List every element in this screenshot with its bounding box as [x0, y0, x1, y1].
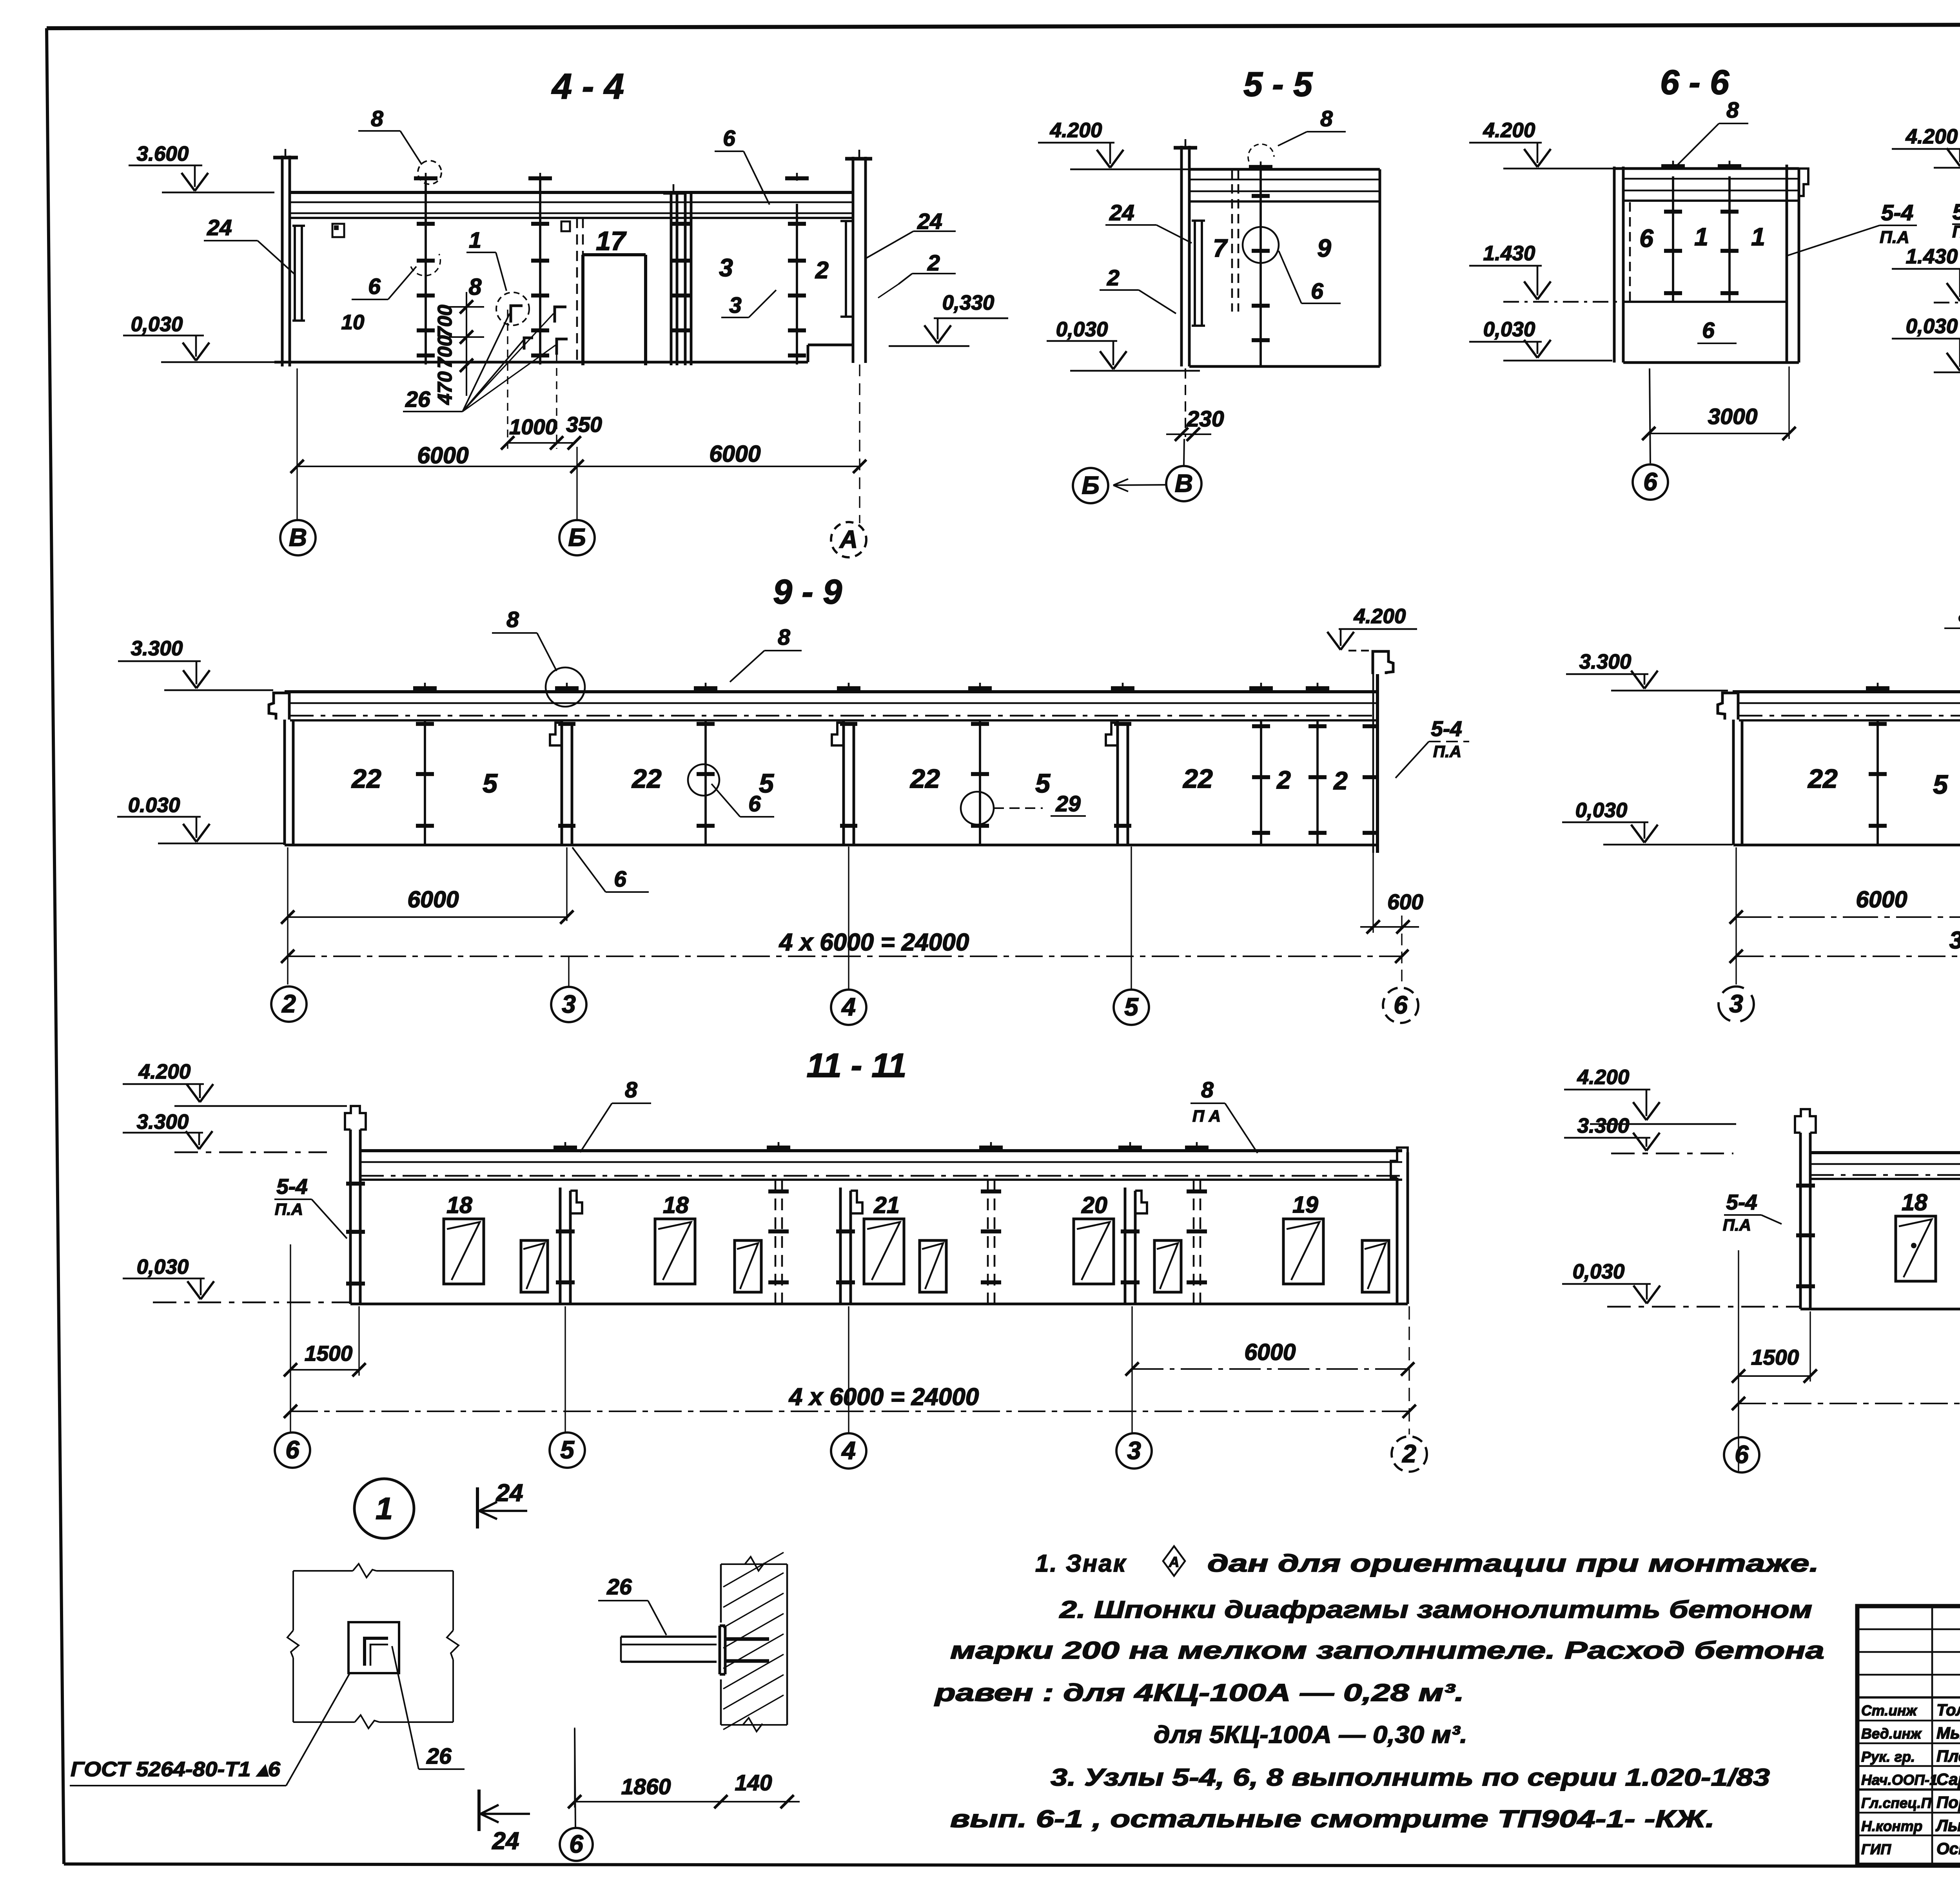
section 5-5 elevation 0.030	[1047, 318, 1200, 371]
svg-text:6: 6	[1735, 1440, 1749, 1469]
svg-text:0,030: 0,030	[1906, 315, 1958, 338]
svg-text:Плетнев: Плетнев	[1936, 1747, 1960, 1765]
section 12-12 floor line	[1800, 1308, 1960, 1311]
svg-text:4.200: 4.200	[1354, 605, 1406, 628]
svg-text:Толмачева: Толмачева	[1936, 1701, 1960, 1719]
section 11-11 big window 21 bay3	[864, 1219, 904, 1284]
section 11-11 witness lines to axes	[290, 1244, 1409, 1434]
svg-text:6000: 6000	[1856, 887, 1907, 912]
section 11-11 axis circle 6	[275, 1432, 310, 1468]
svg-text:18: 18	[1902, 1189, 1927, 1215]
svg-text:6: 6	[748, 791, 761, 816]
svg-text:140: 140	[735, 1770, 772, 1795]
section 5-5 dimension 230	[1166, 406, 1224, 441]
section 6-6 tie 2	[1718, 161, 1741, 302]
section 11-11 dimension 1500	[284, 1306, 366, 1376]
svg-text:470: 470	[434, 371, 456, 405]
section 4-4 panel joint tie 3	[785, 173, 809, 364]
section 12-12 left wall with T-head (axis 6 area)	[1795, 1109, 1816, 1309]
section 11-11 small window bay1	[521, 1240, 548, 1292]
svg-text:равен : для 4КЦ-100А — 0,2: равен : для 4КЦ-100А — 0,28 м³.	[934, 1679, 1464, 1706]
section 9-9 axis circle 4	[831, 847, 866, 1025]
section 6-6 label 6 below	[1697, 318, 1737, 343]
svg-text:8: 8	[1201, 1077, 1214, 1102]
section 4-4 left wall column (axis B)	[273, 149, 298, 366]
svg-text:6000: 6000	[1244, 1339, 1296, 1365]
section 11-11 floor line	[350, 1303, 1408, 1306]
section 11-11 label 18 bay2	[663, 1192, 689, 1218]
section 4-4 elevation mark 0.330 right	[889, 291, 1008, 346]
section 12-12 witness lines	[1739, 1250, 1960, 1472]
svg-text:4.200: 4.200	[1906, 125, 1958, 148]
notes diamond А symbol	[1163, 1546, 1185, 1576]
section 12-12 elevation 0.030	[1562, 1260, 1800, 1307]
section 11-11 label 19 bay5	[1292, 1192, 1318, 1218]
section 10-10 dimension 3x6000=18000	[1730, 927, 1960, 963]
section 4-4 axis circle Б	[559, 520, 595, 555]
section 12-12 label 18 bay1	[1902, 1189, 1927, 1215]
svg-text:П.А: П.А	[1723, 1216, 1751, 1234]
svg-text:дан для ориентации при мон: дан для ориентации при монтаже.	[1207, 1550, 1819, 1577]
section 4-4 door opening 17	[583, 255, 646, 365]
section 11-11 elevation 3.300	[123, 1110, 327, 1152]
svg-text:2: 2	[1276, 766, 1291, 794]
section 9-9 roof slab lines	[285, 692, 1377, 720]
svg-text:1: 1	[376, 1491, 393, 1526]
section 11-11 joint column axis 4	[836, 1188, 862, 1304]
section 4-4 label 24 right with leader	[866, 209, 956, 258]
svg-text:6: 6	[569, 1830, 583, 1858]
section 12-12 elevation 4.200	[1564, 1066, 1736, 1124]
section 4-4 axis circle А (dashed)	[831, 522, 866, 557]
section 6-6 detail label 5-4 П.А	[1788, 200, 1917, 256]
svg-text:П.А: П.А	[1880, 228, 1909, 247]
svg-text:0,030: 0,030	[1573, 1260, 1625, 1283]
section 9-9 floor line	[285, 844, 1377, 847]
detail 2: anchor bar 26 in wall section	[598, 1574, 666, 1635]
section 9-9 axis circle 2	[271, 986, 307, 1022]
svg-text:3 x 6000 = 18000: 3 x 6000 = 18000	[1949, 927, 1960, 954]
svg-text:ГИП: ГИП	[1861, 1841, 1891, 1857]
section 11-11 dashed joint bay3	[979, 1142, 1003, 1304]
section 11-11 axis circle 4	[831, 1433, 866, 1469]
section 6-6 bottom line	[1623, 361, 1799, 364]
detail callout circle 1	[354, 1479, 414, 1538]
section 6-6 left wall	[1614, 167, 1630, 363]
section 10-10 elevation 3.300	[1566, 650, 1728, 691]
svg-text:8: 8	[469, 274, 482, 300]
svg-text:6: 6	[614, 867, 626, 892]
section 4-4 vertical dimension chain 470 700 700	[434, 292, 484, 405]
section 6-6 elevation 4.200	[1469, 119, 1614, 169]
section 4-4 dashed arc at tie 1 mid	[411, 254, 440, 276]
svg-text:Б: Б	[1082, 471, 1099, 499]
svg-text:0,330: 0,330	[942, 291, 995, 314]
svg-text:11 - 11: 11 - 11	[807, 1047, 907, 1084]
section 4-4 hidden joint dashed lines at axis B	[577, 218, 583, 364]
svg-text:8: 8	[778, 625, 790, 650]
section 5-5 roof slab lines	[1189, 169, 1380, 201]
svg-text:230: 230	[1186, 406, 1224, 432]
section 4-4 axis circle В	[280, 520, 316, 555]
section 5-5 bottom line	[1189, 365, 1380, 368]
section 9-9 label 8 first with leader to circle	[492, 607, 585, 707]
svg-text:А: А	[839, 525, 858, 553]
svg-text:4.200: 4.200	[1577, 1066, 1630, 1089]
section 11-11 dashed joint bay2	[767, 1142, 790, 1304]
svg-text:Порученко: Порученко	[1936, 1793, 1960, 1811]
svg-text:3: 3	[1127, 1436, 1141, 1465]
svg-text:6000: 6000	[417, 442, 468, 468]
svg-text:8: 8	[1958, 602, 1960, 627]
section 4-4 small embed square right	[561, 221, 570, 231]
section 9-9 axis circle 6	[1383, 988, 1418, 1023]
section 11-11 label 5-4 П.А	[274, 1174, 347, 1238]
svg-text:4 - 4: 4 - 4	[551, 67, 624, 107]
svg-text:2: 2	[927, 250, 940, 276]
svg-text:6000: 6000	[407, 887, 459, 912]
svg-text:Н.контр: Н.контр	[1861, 1818, 1922, 1834]
svg-text:Остапенко: Остапенко	[1936, 1839, 1960, 1858]
section 9-9 tie bay4-5	[968, 683, 992, 845]
section 4-4 roof slab lines	[290, 192, 853, 218]
section 10-10 panel labels	[1807, 763, 1960, 823]
svg-text:В: В	[289, 523, 307, 551]
svg-text:Мыколс А: Мыколс А	[1936, 1724, 1960, 1742]
section 4-4 elevation mark 0.030	[123, 313, 278, 362]
section cut symbol 24 upper	[477, 1480, 527, 1529]
section 12-12 elevation 3.300	[1564, 1114, 1733, 1153]
section 9-9 tie bay2-3	[413, 683, 437, 845]
svg-text:24: 24	[917, 209, 942, 234]
title block left signature table	[1857, 1606, 1960, 1865]
section 9-9 label 6 on tie bay3-4	[711, 784, 774, 817]
svg-text:4: 4	[841, 1436, 856, 1465]
section 7-7 elevation 0.030	[1892, 315, 1960, 372]
svg-text:29: 29	[1055, 791, 1081, 816]
svg-text:1.430: 1.430	[1906, 245, 1958, 268]
svg-text:700: 700	[434, 335, 456, 368]
svg-text:3: 3	[562, 990, 576, 1018]
svg-text:5-4: 5-4	[1726, 1190, 1757, 1214]
section cut symbol 24 lower	[479, 1790, 530, 1855]
section 11-11 left wall with T-head (axis 6 area)	[345, 1106, 366, 1304]
svg-text:6 - 6: 6 - 6	[1660, 63, 1730, 102]
section 4-4 floor line	[274, 345, 854, 362]
svg-text:3.600: 3.600	[137, 142, 189, 165]
section 4-4 dimension row 6000 6000	[290, 364, 866, 523]
section 11-11 axis circle 5	[550, 1432, 585, 1468]
svg-text:4 x 6000 = 24000: 4 x 6000 = 24000	[779, 929, 969, 956]
svg-text:ГОСТ 5264-80-Т1 ▴6: ГОСТ 5264-80-Т1 ▴6	[71, 1758, 281, 1781]
svg-text:марки 200 на мелком заполн: марки 200 на мелком заполнителе. Расход …	[950, 1637, 1824, 1664]
section 6-6 elevation 0.030	[1469, 318, 1612, 361]
section 11-11 label 21 bay3	[873, 1192, 900, 1218]
svg-text:5: 5	[759, 769, 774, 798]
svg-text:17: 17	[596, 226, 627, 256]
svg-text:1. Знак: 1. Знак	[1035, 1550, 1127, 1577]
section 4-4 label 2 right with dashed leader	[878, 250, 956, 298]
section 4-4 label 8 top with leader	[358, 106, 422, 165]
section 7-7 elevation 1.430	[1892, 245, 1960, 303]
svg-text:0.030: 0.030	[128, 794, 180, 817]
svg-text:6: 6	[723, 126, 735, 151]
svg-text:8: 8	[1726, 98, 1739, 123]
notes text line 5	[1154, 1721, 1467, 1748]
svg-text:7: 7	[1213, 234, 1228, 262]
notes text line 4	[934, 1679, 1464, 1706]
section 9-9 elevation 4.200 right	[1327, 605, 1417, 651]
svg-text:5: 5	[1035, 769, 1051, 798]
section 4-4 label 6 mid-left with leader	[352, 267, 416, 299]
svg-text:5: 5	[560, 1436, 575, 1464]
svg-text:22: 22	[631, 764, 662, 794]
svg-text:1000: 1000	[509, 415, 557, 439]
section 4-4 label 24 left with leader	[204, 215, 295, 274]
section 4-4 label 6 top-right with leader	[715, 126, 769, 205]
svg-text:24: 24	[1109, 200, 1134, 225]
section 5-5 axis circle Б with arrow from В	[1073, 439, 1201, 503]
svg-text:Лышенко: Лышенко	[1935, 1816, 1960, 1835]
section 12-12 big window 18 bay1 (with dot)	[1896, 1216, 1936, 1281]
section 9-9 left parapet and wall (axis 2)	[269, 693, 293, 845]
svg-text:22: 22	[909, 764, 940, 794]
section 10-10 floor line	[1733, 844, 1960, 847]
svg-text:6: 6	[285, 1436, 299, 1464]
section 5-5 title	[1243, 65, 1313, 103]
section 9-9 tie 1 in bay5-6	[1249, 683, 1273, 845]
svg-text:П.А: П.А	[1952, 222, 1960, 241]
section 5-5 hidden dashed lines	[1232, 169, 1238, 312]
section 9-9 panel labels 22 5 22 5 22 5 22 2 2	[351, 764, 1348, 798]
svg-text:0,030: 0,030	[137, 1255, 189, 1278]
detail: label 26 with leader	[392, 1646, 465, 1769]
section 9-9 detail circle on tie bay4-5 with label 29	[961, 791, 1086, 825]
svg-text:Вед.инж: Вед.инж	[1861, 1726, 1922, 1742]
svg-text:0,030: 0,030	[1056, 318, 1108, 341]
svg-text:26: 26	[606, 1574, 632, 1599]
svg-text:1500: 1500	[1751, 1345, 1799, 1369]
section 11-11 label 20 bay4	[1081, 1192, 1107, 1218]
section 6-6 panel label 1 (first)	[1694, 223, 1708, 251]
svg-text:0,030: 0,030	[131, 313, 183, 336]
section 12-12 dimension 1500 left	[1732, 1311, 1817, 1383]
section 11-11 label 8 with leader	[580, 1077, 651, 1152]
section 11-11 label 8 П.А right with leader	[1191, 1077, 1258, 1153]
section 5-5 elevation 4.200	[1038, 119, 1200, 169]
svg-text:9: 9	[1317, 234, 1331, 262]
section 9-9 dimension 600 right	[1360, 890, 1423, 934]
section 9-9 detail circle on tie bay3-4	[688, 764, 719, 796]
detail 2: dimensions 1860 and 140	[568, 1728, 800, 1808]
section 4-4 panel label 10	[341, 311, 365, 334]
section 4-4 small embed square on panel 10	[332, 224, 344, 237]
svg-text:П.А: П.А	[1433, 742, 1461, 761]
section 7-7 elevation 4.200	[1892, 125, 1960, 168]
section 11-11 roof slab lines	[360, 1151, 1402, 1180]
section 11-11 small window bay5	[1362, 1240, 1389, 1292]
svg-text:3.300: 3.300	[1577, 1114, 1630, 1137]
section 6-6 title	[1660, 63, 1730, 102]
section 11-11 dashed joint bay4	[1185, 1142, 1209, 1304]
section 11-11 title	[807, 1047, 907, 1084]
section 4-4 label 17	[596, 226, 627, 256]
svg-text:8: 8	[1320, 106, 1333, 131]
svg-text:3: 3	[719, 254, 733, 282]
svg-text:1: 1	[1694, 223, 1708, 251]
svg-text:2: 2	[281, 990, 296, 1018]
svg-text:4: 4	[841, 993, 856, 1021]
svg-text:3.300: 3.300	[137, 1110, 189, 1133]
section 9-9 label 8 second with leader	[730, 625, 802, 682]
section 12-12 roof slab lines	[1810, 1153, 1960, 1179]
svg-text:3.300: 3.300	[131, 637, 183, 660]
section 9-9 dimension 6000	[281, 887, 573, 924]
section 11-11 axis circle 3	[1116, 1433, 1152, 1469]
section 5-5 label 24 with leader	[1105, 200, 1192, 243]
section 11-11 small window bay4	[1154, 1240, 1181, 1292]
svg-text:600: 600	[1387, 890, 1423, 914]
section 11-11 big window 19 bay5	[1283, 1219, 1323, 1284]
svg-text:2. Шпонки диафрагмы замоноли: 2. Шпонки диафрагмы замонолитить бетоном	[1059, 1596, 1812, 1623]
svg-text:4.200: 4.200	[1050, 119, 1102, 142]
svg-text:2: 2	[1402, 1440, 1416, 1468]
detail 2: axis circle 6 below	[560, 1729, 593, 1861]
section 9-9 detail label 5-4 П.А right	[1396, 716, 1469, 778]
section 11-11 axis circle 2 (dashed)	[1392, 1436, 1427, 1472]
svg-text:24: 24	[496, 1480, 523, 1507]
section 9-9 title	[773, 572, 842, 611]
section 10-10 axis circle 3	[1719, 986, 1754, 1022]
section 6-6 roof slab lines	[1614, 169, 1799, 201]
svg-text:6: 6	[1311, 279, 1323, 304]
svg-text:Ст.инж: Ст.инж	[1861, 1703, 1917, 1719]
svg-text:6: 6	[1394, 991, 1408, 1019]
svg-text:18: 18	[446, 1192, 472, 1218]
svg-text:6000: 6000	[709, 441, 760, 467]
svg-text:0,030: 0,030	[1575, 799, 1628, 822]
detail: weld designation ГОСТ 5264-80-Т1 with leaders	[70, 1673, 350, 1786]
section 4-4 label 26 with fan leaders	[403, 314, 556, 412]
section 11-11 label 18 bay1	[446, 1192, 472, 1218]
svg-text:6: 6	[368, 274, 381, 299]
detail: inner embed square with key	[348, 1622, 399, 1673]
svg-text:26: 26	[405, 387, 430, 412]
section 12-12 dimension 3x6000=18000	[1732, 1376, 1960, 1410]
section 10-10 left parapet and wall (axis 3)	[1718, 693, 1742, 845]
section 5-5 panel joint tie	[1249, 161, 1272, 366]
section 11-11 big window 18 bay1	[444, 1219, 484, 1284]
svg-text:5 - 5: 5 - 5	[1243, 65, 1313, 103]
svg-text:Рук. гр.: Рук. гр.	[1861, 1749, 1915, 1765]
svg-text:1860: 1860	[621, 1774, 671, 1799]
section 10-10 elevation 0.030	[1562, 799, 1733, 845]
svg-text:вып. 6-1 , остальные смотрит: вып. 6-1 , остальные смотрите ТП904-1- -…	[950, 1806, 1715, 1833]
section 11-11 small window bay3	[920, 1240, 946, 1292]
svg-text:3. Узлы 5-4, 6, 8 выполнить: 3. Узлы 5-4, 6, 8 выполнить по серии 1.0…	[1051, 1764, 1770, 1791]
section 5-5 label 8 with leader to dashed arc	[1248, 106, 1346, 161]
svg-text:1.430: 1.430	[1483, 242, 1535, 265]
section 9-9 axis circle 5	[1114, 847, 1149, 1025]
section 4-4 connector strip 24 on left column	[292, 226, 305, 321]
section 4-4 shear key symbols (26)	[511, 306, 568, 355]
section 11-11 right wall with parapet (axis 2)	[1391, 1148, 1408, 1304]
svg-text:26: 26	[426, 1744, 452, 1769]
section 5-5 dashed witness below wall	[1185, 368, 1186, 437]
section 4-4 middle twin columns	[663, 184, 691, 365]
section 5-5 left wall (transverse, edge-on)	[1174, 139, 1197, 366]
svg-text:18: 18	[663, 1192, 689, 1218]
section 9-9 right wall ticks	[1363, 726, 1378, 833]
svg-text:700: 700	[434, 305, 456, 338]
section 9-9 label 6 below floor with leader	[572, 847, 649, 892]
svg-text:5-4: 5-4	[1881, 200, 1913, 225]
svg-text:В: В	[1175, 469, 1193, 497]
section 6-6 elevation 1.430	[1469, 242, 1674, 302]
section 4-4 elevation mark 3.600	[129, 142, 274, 192]
section 11-11 joint column axis 5	[554, 1142, 582, 1304]
svg-text:5: 5	[1933, 770, 1948, 800]
section 4-4 connector strip right column	[840, 221, 853, 317]
section 7-7 label 5-4 П.А	[1952, 199, 1960, 259]
section 4-4 dashed detail circle at tie 1 top (label 8 target)	[418, 161, 441, 184]
svg-text:1: 1	[469, 228, 481, 253]
detail 2: anchor bar	[621, 1626, 769, 1674]
section 4-4 label 1 with leader to dashed circle	[466, 228, 529, 325]
section 9-9 elevation 3.300	[118, 637, 273, 690]
section 5-5 label 9	[1317, 234, 1331, 262]
section 4-4 dimension 1000 and 350	[501, 310, 602, 450]
svg-text:8: 8	[625, 1077, 637, 1102]
svg-text:1: 1	[1751, 223, 1765, 251]
section 9-9 dimension 4x6000=24000	[281, 929, 1408, 963]
section 9-9 axis circle 3	[551, 956, 586, 1022]
section 4-4 right wall column (axis A)	[845, 150, 872, 363]
svg-text:Нач.ООП-1: Нач.ООП-1	[1861, 1772, 1938, 1788]
section 11-11 dimension 6000 right	[1125, 1339, 1414, 1376]
svg-text:5: 5	[1124, 993, 1139, 1021]
svg-text:22: 22	[1182, 764, 1213, 794]
section 6-6 label 8 with leader	[1678, 98, 1748, 165]
svg-text:24: 24	[492, 1828, 519, 1855]
svg-text:П.А: П.А	[275, 1200, 303, 1218]
svg-text:3.300: 3.300	[1579, 650, 1632, 673]
section 11-11 elevation 0.030	[123, 1255, 350, 1302]
detail 2: wall with hatching	[721, 1552, 787, 1732]
svg-text:20: 20	[1081, 1192, 1107, 1218]
section 6-6 right column with notch	[1787, 165, 1808, 363]
section 6-6 axis circle 6	[1633, 368, 1668, 500]
svg-text:5: 5	[483, 769, 498, 798]
svg-text:0,030: 0,030	[1483, 318, 1535, 341]
svg-text:19: 19	[1292, 1192, 1318, 1218]
section 10-10 label 8 first with leader	[1944, 602, 1960, 671]
section 4-4 panel joint tie 2	[528, 173, 552, 364]
svg-text:П А: П А	[1192, 1107, 1221, 1125]
section 9-9 witness lines	[288, 847, 1402, 985]
section 11-11 small window bay2	[735, 1240, 761, 1292]
section 6-6 panel label 1 (second)	[1751, 223, 1765, 251]
section 9-9 tie 2 in bay5-6	[1306, 683, 1329, 845]
section 4-4 panel label 3	[719, 254, 733, 282]
svg-text:Саркисянц: Саркисянц	[1936, 1770, 1960, 1788]
section 9-9 joint column axis 4	[832, 683, 860, 845]
notes text line 6	[1051, 1764, 1770, 1791]
section 5-5 connector strip 24	[1192, 221, 1205, 326]
detail: plan view of wall joint with embedded key	[287, 1564, 459, 1728]
svg-text:4.200: 4.200	[1483, 119, 1535, 142]
svg-text:для 5КЦ-100А — 0,30 м³.: для 5КЦ-100А — 0,30 м³.	[1154, 1721, 1467, 1748]
